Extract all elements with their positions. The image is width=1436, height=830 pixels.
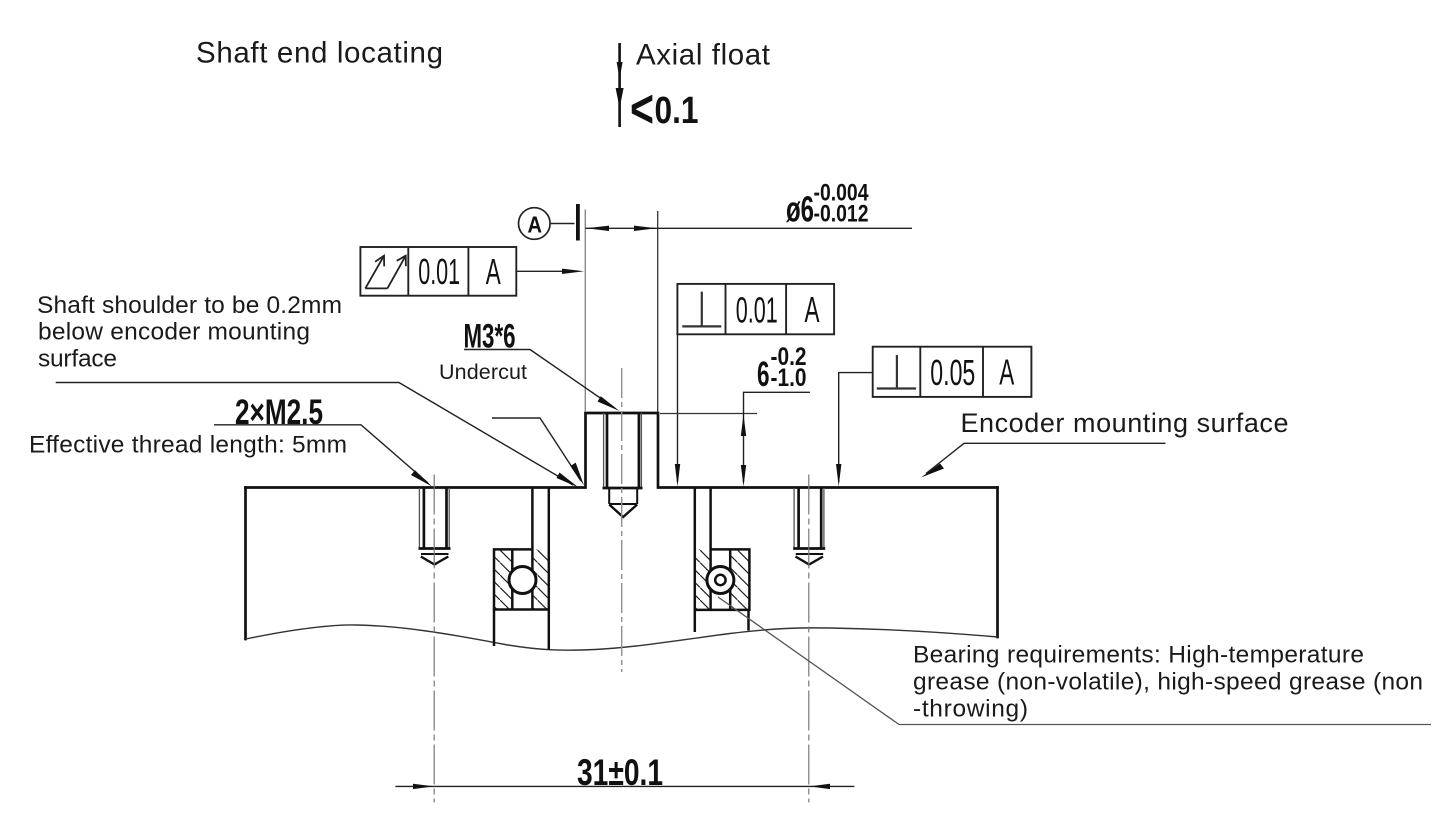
datum target A: circle, leader and datum tick [519, 204, 580, 241]
svg-text:A: A [805, 289, 820, 330]
tapped hole M3*6 in shaft boss with drill point and centerline [603, 368, 643, 672]
diameter dimension ø6 -0.004/-0.012 with extension lines and arrows [585, 210, 912, 413]
svg-text:A: A [486, 251, 501, 292]
svg-text:ø6: ø6 [786, 189, 814, 230]
total runout symbol (two slanted arrows) [365, 256, 406, 289]
svg-text:Axial float: Axial float [636, 39, 770, 72]
svg-text:Shaft end locating: Shaft end locating [196, 37, 443, 70]
leader: 2×M2.5 label [214, 425, 432, 487]
leader: undercut note [492, 418, 584, 486]
svg-text:Effective thread length: 5mm: Effective thread length: 5mm [29, 432, 347, 459]
svg-text:grease (non-volatile), high-sp: grease (non-volatile), high-speed grease… [913, 668, 1423, 695]
svg-text:0.05: 0.05 [930, 352, 975, 393]
svg-text:6: 6 [757, 355, 770, 394]
svg-text:-throwing): -throwing) [913, 696, 1028, 723]
height dimension 6 -0.2/-1.0 of shaft boss [660, 392, 810, 486]
svg-text:Bearing requirements: High-tem: Bearing requirements: High-temperature [913, 641, 1364, 668]
svg-text:Shaft shoulder to be 0.2mm: Shaft shoulder to be 0.2mm [37, 292, 342, 319]
leader: shaft shoulder note [56, 383, 579, 488]
leader: runout frame to shaft ø6 [516, 270, 578, 272]
svg-text:Encoder mounting surface: Encoder mounting surface [961, 408, 1289, 438]
right bearing (hatched section, ball ring, housing bore) [695, 488, 750, 633]
feature control frame: perpendicularity 0.05 A [873, 347, 1032, 397]
svg-text:surface: surface [38, 346, 117, 373]
svg-text:0.01: 0.01 [736, 289, 778, 330]
leader: bearing requirements note [718, 597, 1431, 725]
right M2.5 tapped hole with centerline / 31-dim extension line [793, 475, 825, 803]
dimension 31±0.1 between screw hole centers [395, 784, 854, 789]
break wave line (bottom of sectioned housing) [246, 625, 998, 650]
left bearing (hatched section, ball, housing bore) [494, 488, 549, 650]
left M2.5 tapped hole with centerline / 31-dim extension line [419, 475, 451, 803]
svg-text:below encoder mounting: below encoder mounting [38, 319, 310, 346]
svg-text:-1.0: -1.0 [771, 364, 807, 392]
axial float double arrow [616, 43, 624, 127]
svg-text:-0.012: -0.012 [814, 201, 869, 228]
dimension and tolerance texts (CAD font) [235, 79, 1014, 793]
svg-text:0.1: 0.1 [655, 90, 699, 132]
svg-text:A: A [999, 351, 1014, 392]
feature control frame: total runout 0.01 A [360, 247, 516, 296]
svg-text:2×M2.5: 2×M2.5 [235, 393, 323, 432]
feature control frame: perpendicularity 0.01 A [677, 284, 834, 334]
leader: encoder mounting surface label [921, 443, 1166, 477]
leader: M3*6 label [464, 350, 620, 412]
svg-text:A: A [528, 212, 543, 238]
part outline: encoder mounting surface, shaft boss and side edges [246, 413, 998, 639]
svg-text:<: < [630, 79, 654, 139]
svg-text:Undercut: Undercut [439, 360, 527, 384]
svg-text:0.01: 0.01 [418, 251, 460, 292]
